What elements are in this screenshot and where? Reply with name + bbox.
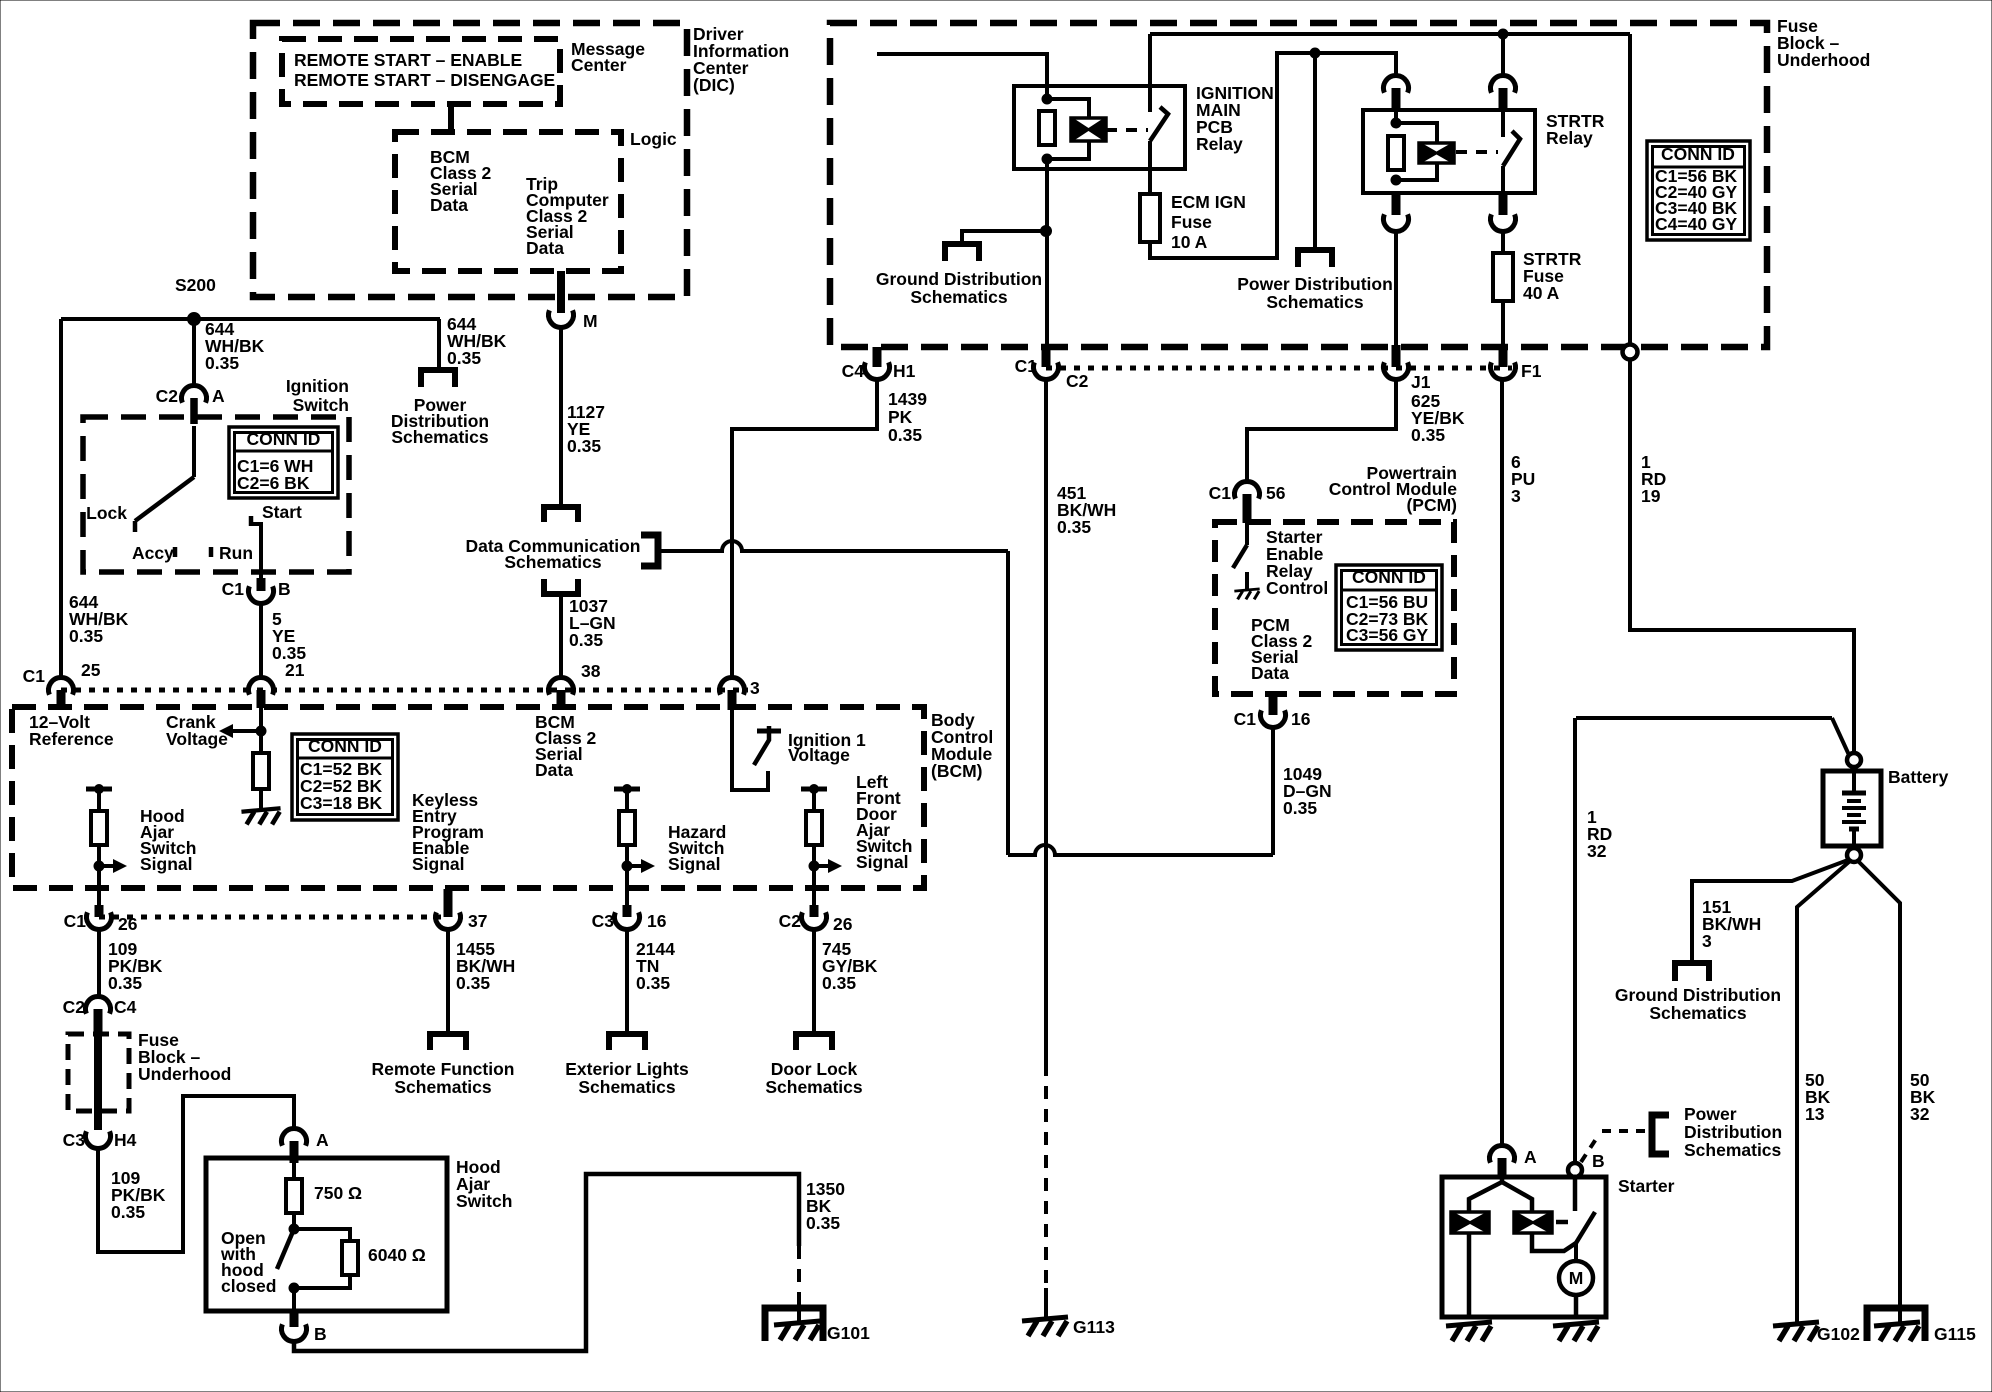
wire ign relay switch top xyxy=(1148,34,1152,112)
junction strtr coil top xyxy=(1391,118,1401,128)
wire strtr switch drop xyxy=(1501,34,1505,76)
svg-text:G102: G102 xyxy=(1817,1324,1860,1344)
chassis ground (starter enable) xyxy=(1234,589,1259,591)
wire H1 to ignition relay coil xyxy=(877,54,1047,99)
svg-text:C4=40 GY: C4=40 GY xyxy=(1655,214,1738,234)
starter linkage xyxy=(1556,1220,1572,1225)
svg-text:Relay: Relay xyxy=(1546,128,1593,148)
ignition switch box xyxy=(83,417,349,572)
hood signal arrow xyxy=(99,864,116,868)
svg-text:Schematics: Schematics xyxy=(1649,1003,1747,1023)
conn id box (BCM) xyxy=(292,734,398,820)
svg-text:Schematics: Schematics xyxy=(1266,292,1364,312)
svg-text:Signal: Signal xyxy=(412,854,465,874)
pin stub J1 xyxy=(1392,345,1401,367)
svg-text:0.35: 0.35 xyxy=(447,348,481,368)
svg-text:C1: C1 xyxy=(1015,356,1038,376)
resistor strtr relay xyxy=(1388,136,1404,170)
svg-text:Signal: Signal xyxy=(668,854,721,874)
pin stub strtr switch bottom xyxy=(1499,193,1508,215)
wire 1439 PK xyxy=(732,379,877,678)
svg-text:Accy: Accy xyxy=(132,543,174,563)
pin stub strtr coil top xyxy=(1392,88,1401,110)
fuse STRTR xyxy=(1493,253,1513,301)
connector C3 16 xyxy=(614,912,639,929)
svg-text:10 A: 10 A xyxy=(1171,232,1208,252)
door ajar source bar xyxy=(801,787,827,792)
svg-text:16: 16 xyxy=(1291,709,1311,729)
junction strtr coil bottom xyxy=(1391,175,1401,185)
wire 1 RD 32 xyxy=(1576,716,1832,720)
svg-text:ECM IGN: ECM IGN xyxy=(1171,192,1246,212)
svg-text:Schematics: Schematics xyxy=(504,552,602,572)
svg-text:0.35: 0.35 xyxy=(806,1213,840,1233)
connector C2 A xyxy=(181,386,206,403)
svg-text:Ignition: Ignition xyxy=(286,376,349,396)
junction crank voltage xyxy=(256,726,266,736)
svg-text:Underhood: Underhood xyxy=(138,1064,231,1084)
off-page bracket data comm lower xyxy=(544,579,578,594)
svg-text:Distribution: Distribution xyxy=(1684,1122,1782,1142)
svg-text:40 A: 40 A xyxy=(1523,283,1560,303)
wire S200 branch down to power dist ref xyxy=(437,319,441,370)
wire J1 drop xyxy=(1394,231,1398,348)
off-page bracket remote function xyxy=(430,1034,466,1050)
svg-text:C3: C3 xyxy=(592,911,615,931)
wire ECM fuse to STRTR coil xyxy=(1150,53,1396,258)
message center box xyxy=(282,39,560,104)
off-page bracket ground dist (fuse) xyxy=(945,244,979,261)
wire 625 YE/BK xyxy=(1247,379,1396,482)
wire 6040 branch xyxy=(294,1229,350,1241)
fuse block small box xyxy=(68,1034,129,1111)
resistor door ajar xyxy=(806,811,822,845)
svg-text:56: 56 xyxy=(1266,483,1286,503)
harness connector row (lower) xyxy=(99,915,448,920)
connector C1 25 at BCM xyxy=(48,678,73,695)
svg-text:Ground Distribution: Ground Distribution xyxy=(876,269,1042,289)
svg-text:Switch: Switch xyxy=(456,1191,512,1211)
connector 21 at BCM xyxy=(249,678,274,695)
conn id box (PCM) xyxy=(1336,565,1442,650)
svg-text:(DIC): (DIC) xyxy=(693,75,735,95)
svg-text:Starter: Starter xyxy=(1618,1176,1675,1196)
svg-text:25: 25 xyxy=(81,660,101,680)
connector C3 H4 xyxy=(85,1131,110,1148)
chassis ground G101 xyxy=(774,1321,820,1325)
pin stub 37 xyxy=(444,889,453,917)
terminal circle fuse exit xyxy=(1623,345,1638,360)
wire 6040 return xyxy=(294,1275,350,1288)
svg-text:F1: F1 xyxy=(1521,361,1542,381)
svg-text:Battery: Battery xyxy=(1888,767,1949,787)
svg-text:Exterior Lights: Exterior Lights xyxy=(565,1059,689,1079)
pin stub 16 xyxy=(623,905,632,917)
svg-text:Schematics: Schematics xyxy=(1684,1140,1782,1160)
svg-text:0.35: 0.35 xyxy=(205,353,239,373)
svg-text:Logic: Logic xyxy=(630,129,677,149)
solenoid coil 1 xyxy=(1451,1212,1489,1233)
svg-text:H4: H4 xyxy=(114,1130,137,1150)
junction hood blade bottom xyxy=(289,1283,299,1293)
svg-text:closed: closed xyxy=(221,1276,276,1296)
svg-text:0.35: 0.35 xyxy=(1057,517,1091,537)
crank voltage arrow xyxy=(230,729,262,733)
resistor hazard xyxy=(619,811,635,845)
pin stub B xyxy=(257,578,266,591)
terminal circle B starter xyxy=(1568,1163,1582,1177)
connector STRTR coil top xyxy=(1383,76,1408,93)
svg-text:J1: J1 xyxy=(1411,372,1431,392)
pin stub 56 xyxy=(1243,494,1252,523)
harness connector row (BCM C1) xyxy=(61,688,748,693)
svg-text:26: 26 xyxy=(118,914,138,934)
pcm box xyxy=(1215,522,1454,694)
connector C1 C2 xyxy=(1034,362,1059,379)
svg-text:32: 32 xyxy=(1587,841,1607,861)
svg-text:Center: Center xyxy=(571,55,627,75)
connector F1 xyxy=(1491,362,1516,379)
strtr relay box xyxy=(1363,110,1535,193)
svg-text:A: A xyxy=(212,386,225,406)
svg-text:Schematics: Schematics xyxy=(391,427,489,447)
wire S200 to C1-25 xyxy=(59,319,63,678)
junction hood blade top xyxy=(289,1224,299,1234)
dashed link B to power dist xyxy=(1581,1131,1648,1162)
connector C1 26 xyxy=(86,912,111,929)
svg-text:0.35: 0.35 xyxy=(822,973,856,993)
wire ign relay switch bottom xyxy=(1148,141,1152,194)
starter enable blade xyxy=(1233,545,1247,568)
wire ignition1 voltage drop xyxy=(732,710,768,790)
pin stub A hood xyxy=(290,1141,299,1163)
pin stub B hood xyxy=(290,1311,299,1327)
pin stub 16 pcm xyxy=(1269,694,1278,715)
battery box xyxy=(1823,771,1881,846)
tick Run xyxy=(209,547,214,557)
svg-text:C4: C4 xyxy=(842,361,865,381)
svg-text:26: 26 xyxy=(833,914,853,934)
chassis ground G115 xyxy=(1874,1322,1920,1326)
wire data comm horizontal xyxy=(658,541,1008,551)
svg-text:H1: H1 xyxy=(893,361,916,381)
wire 6 PU 3 xyxy=(1500,379,1504,1147)
svg-text:C2: C2 xyxy=(1066,371,1089,391)
ignition1 switch blade xyxy=(754,726,769,765)
wire G113 dashed xyxy=(1044,1063,1048,1283)
svg-text:C3=18 BK: C3=18 BK xyxy=(300,793,383,813)
hood ajar source bar xyxy=(86,787,112,792)
svg-text:0.35: 0.35 xyxy=(456,973,490,993)
wire strtr fuse to F1 xyxy=(1501,301,1505,348)
wire hazard internal xyxy=(625,789,629,811)
pin stub 26b xyxy=(810,905,819,917)
hood switch blade xyxy=(277,1229,294,1269)
junction hood signal xyxy=(94,861,104,871)
connector 37 xyxy=(436,912,461,929)
svg-text:0.35: 0.35 xyxy=(888,425,922,445)
pin stub C4 xyxy=(94,1009,103,1034)
wire A stub to box xyxy=(292,1161,296,1180)
svg-text:0.35: 0.35 xyxy=(108,973,142,993)
svg-text:CONN ID: CONN ID xyxy=(1352,567,1426,587)
connector 38 xyxy=(549,678,574,695)
svg-text:0.35: 0.35 xyxy=(111,1202,145,1222)
wire G115 run xyxy=(1858,861,1900,1322)
svg-text:(BCM): (BCM) xyxy=(931,761,983,781)
svg-text:32: 32 xyxy=(1910,1104,1930,1124)
wire top bus xyxy=(1150,32,1630,36)
svg-text:C4: C4 xyxy=(114,997,137,1017)
svg-text:Data: Data xyxy=(430,195,468,215)
connector C4 H1 xyxy=(865,362,890,379)
wire 1RD32 vertical xyxy=(1573,718,1577,1163)
pin stub 25 xyxy=(57,690,66,708)
wire 151 diagonal xyxy=(1692,860,1848,963)
chassis ground (starter coil1) xyxy=(1446,1322,1492,1326)
wire ground dist tee xyxy=(962,231,1046,244)
connector C2 26 xyxy=(802,912,827,929)
svg-text:C2: C2 xyxy=(779,911,802,931)
starter feed fork xyxy=(1469,1177,1532,1212)
hazard source bar xyxy=(614,787,640,792)
svg-text:1439: 1439 xyxy=(888,389,927,409)
svg-text:CONN ID: CONN ID xyxy=(247,429,321,449)
svg-text:0.35: 0.35 xyxy=(69,626,103,646)
svg-text:Relay: Relay xyxy=(1196,134,1243,154)
svg-text:S200: S200 xyxy=(175,275,216,295)
svg-text:Fuse: Fuse xyxy=(1171,212,1212,232)
connector B hood switch xyxy=(282,1324,307,1341)
splice S200 xyxy=(188,313,201,326)
wire door ajar internal xyxy=(812,789,816,811)
connector C1 16 xyxy=(1261,710,1286,727)
svg-text:Signal: Signal xyxy=(856,852,909,872)
connector strtr switch bottom xyxy=(1491,214,1516,231)
tick Accy xyxy=(173,547,178,557)
svg-text:REMOTE START – ENABLE: REMOTE START – ENABLE xyxy=(294,50,522,70)
wire 1RD19 run xyxy=(1630,359,1854,753)
svg-text:Underhood: Underhood xyxy=(1777,50,1870,70)
ign relay switch blade xyxy=(1150,107,1168,141)
wire S200 horizontal xyxy=(61,317,440,321)
svg-text:B: B xyxy=(1592,1151,1605,1171)
wire to B xyxy=(292,1288,296,1313)
svg-text:Data: Data xyxy=(535,760,573,780)
svg-text:Schematics: Schematics xyxy=(765,1077,863,1097)
off-page bracket data comm upper xyxy=(544,507,578,522)
svg-text:Run: Run xyxy=(219,543,253,563)
svg-text:3: 3 xyxy=(750,678,760,698)
off-page bracket door lock xyxy=(796,1034,832,1050)
wire ign relay coil link2 xyxy=(1047,141,1089,159)
svg-text:Schematics: Schematics xyxy=(578,1077,676,1097)
wire G101 stub xyxy=(797,1296,801,1322)
coil ign relay xyxy=(1071,118,1106,141)
logic box xyxy=(395,132,621,271)
connector J1 xyxy=(1384,362,1409,379)
svg-text:38: 38 xyxy=(581,661,601,681)
wire G101 dashed xyxy=(797,1246,801,1298)
svg-text:C2=6 BK: C2=6 BK xyxy=(237,473,310,493)
off-page bracket power distribution xyxy=(421,370,455,387)
svg-text:Power: Power xyxy=(1684,1104,1737,1124)
svg-text:Schematics: Schematics xyxy=(910,287,1008,307)
ignition switch blade xyxy=(135,477,194,521)
wire strtr coil entry xyxy=(1394,105,1398,123)
junction strtr switch xyxy=(1498,29,1508,39)
pin stub H1 xyxy=(873,347,882,367)
junction ign relay coil top xyxy=(1042,94,1052,104)
body control module (BCM) box xyxy=(12,707,924,888)
fuse block underhood box xyxy=(830,23,1767,347)
svg-text:Ground Distribution: Ground Distribution xyxy=(1615,985,1781,1005)
wire 750 to blade xyxy=(292,1213,296,1229)
connector strtr coil bottom xyxy=(1384,214,1409,231)
motor circle xyxy=(1559,1261,1593,1295)
battery bottom stub xyxy=(1852,829,1856,848)
chassis ground (crank voltage) xyxy=(241,808,280,811)
connector A starter xyxy=(1490,1146,1515,1163)
wire 37 down xyxy=(446,929,450,1034)
svg-text:CONN ID: CONN ID xyxy=(1661,144,1735,164)
svg-text:Signal: Signal xyxy=(140,854,193,874)
strtr relay linkage xyxy=(1456,150,1498,154)
wire 16 down xyxy=(625,929,629,1034)
wire strtr switch lower xyxy=(1501,166,1505,194)
svg-text:Power Distribution: Power Distribution xyxy=(1237,274,1393,294)
svg-text:G113: G113 xyxy=(1073,1317,1115,1337)
harness connector row (underhood) xyxy=(1046,366,1512,371)
wire door ajar lower xyxy=(812,845,816,907)
wire strtr switch upper xyxy=(1501,107,1505,137)
wire up to PCM 16 xyxy=(1271,727,1275,855)
battery negative circle xyxy=(1847,848,1861,862)
wire hood ajar lower xyxy=(97,845,101,907)
wire S200 to ignition switch A xyxy=(192,319,196,386)
svg-text:21: 21 xyxy=(285,660,305,680)
battery top stub xyxy=(1852,767,1856,793)
svg-text:3: 3 xyxy=(1702,931,1712,951)
svg-text:6040 Ω: 6040 Ω xyxy=(368,1245,426,1265)
svg-text:Lock: Lock xyxy=(86,503,127,523)
svg-text:19: 19 xyxy=(1641,486,1661,506)
ignition main pcb relay box xyxy=(1014,86,1185,169)
svg-text:0.35: 0.35 xyxy=(567,436,601,456)
wire data comm bottom xyxy=(1008,845,1273,855)
wire B to BCM 21 xyxy=(259,603,263,678)
battery positive circle xyxy=(1847,753,1861,767)
svg-text:REMOTE START – DISENGAGE: REMOTE START – DISENGAGE xyxy=(294,70,555,90)
pin stub 21 xyxy=(257,690,266,708)
svg-text:13: 13 xyxy=(1805,1104,1825,1124)
strtr switch blade xyxy=(1503,131,1520,166)
svg-text:37: 37 xyxy=(468,911,487,931)
wire coil1 to ground xyxy=(1467,1233,1472,1317)
svg-text:Remote Function: Remote Function xyxy=(372,1059,515,1079)
conn id box (ignition switch) xyxy=(229,427,338,498)
goalpost G115 xyxy=(1867,1308,1925,1341)
wire ign relay coil bottom to C2 xyxy=(1045,159,1049,348)
svg-text:Schematics: Schematics xyxy=(394,1077,492,1097)
svg-text:Reference: Reference xyxy=(29,729,114,749)
wire M to data comm xyxy=(559,328,563,507)
wire power dist drop xyxy=(1313,53,1317,252)
connector C2 C4 xyxy=(85,997,110,1014)
conn id box (fuse block) xyxy=(1647,141,1750,240)
wire strtr coil link xyxy=(1396,123,1437,143)
coil strtr relay xyxy=(1419,143,1454,163)
svg-text:A: A xyxy=(316,1130,329,1150)
svg-text:C1: C1 xyxy=(1234,709,1257,729)
wire motor to ground xyxy=(1574,1295,1579,1317)
svg-text:Voltage: Voltage xyxy=(788,745,850,765)
wire message center to logic xyxy=(448,104,454,132)
svg-text:C1: C1 xyxy=(23,666,46,686)
svg-text:Door Lock: Door Lock xyxy=(771,1059,858,1079)
svg-text:G101: G101 xyxy=(827,1323,870,1343)
connector C1 B xyxy=(249,586,274,603)
tick Lock xyxy=(133,521,138,532)
svg-text:C3: C3 xyxy=(63,1130,86,1150)
starter box xyxy=(1442,1177,1606,1317)
goalpost G101 xyxy=(765,1308,823,1341)
svg-text:C1: C1 xyxy=(64,911,87,931)
pin stub 38 xyxy=(557,690,566,708)
svg-text:Data: Data xyxy=(526,238,564,258)
svg-text:C1: C1 xyxy=(222,579,245,599)
svg-text:Control: Control xyxy=(1266,578,1328,598)
off-page bracket power dist (fuse) xyxy=(1298,250,1332,267)
wire 56 internal xyxy=(1245,521,1249,545)
resistor ign relay xyxy=(1039,111,1055,145)
starter enable ground stub xyxy=(1245,572,1249,589)
wire data comm to 38 xyxy=(559,594,563,678)
wire 21 to resistor xyxy=(259,708,263,753)
connector 3 at BCM xyxy=(719,678,744,695)
wire to 750 ohm xyxy=(292,1158,296,1179)
hazard signal arrow xyxy=(627,864,644,868)
wire 26 down xyxy=(97,929,101,997)
wire data comm vertical right xyxy=(1006,551,1010,855)
svg-text:C1: C1 xyxy=(1209,483,1232,503)
wire B to G101 run xyxy=(294,1174,799,1351)
wire 1RD32 diagonal xyxy=(1832,718,1849,755)
wire hazard lower xyxy=(625,845,629,907)
tick Start xyxy=(249,516,254,526)
data comm side bracket xyxy=(641,535,658,566)
ign relay linkage xyxy=(1106,128,1148,132)
off-page bracket power dist (starter) xyxy=(1652,1115,1669,1154)
svg-text:CONN ID: CONN ID xyxy=(308,736,382,756)
chassis ground G102 xyxy=(1773,1322,1819,1326)
resistor crank voltage xyxy=(253,753,269,789)
wire 451 BK/WH xyxy=(1044,379,1048,1063)
wire G113 stub xyxy=(1044,1288,1048,1318)
wire blade to motor xyxy=(1574,1243,1578,1262)
chassis ground G113 xyxy=(1022,1317,1068,1321)
svg-text:G115: G115 xyxy=(1934,1324,1976,1344)
battery cell bars xyxy=(1842,791,1866,796)
wire ign relay coil link xyxy=(1047,99,1089,118)
pin stub strtr coil bottom xyxy=(1392,193,1401,215)
svg-text:B: B xyxy=(278,579,291,599)
wire strtr coil link2 xyxy=(1396,163,1437,180)
svg-text:16: 16 xyxy=(647,911,667,931)
svg-text:0.35: 0.35 xyxy=(1411,425,1445,445)
pin stub 26 xyxy=(95,905,104,917)
off-page bracket exterior lights xyxy=(609,1034,645,1050)
